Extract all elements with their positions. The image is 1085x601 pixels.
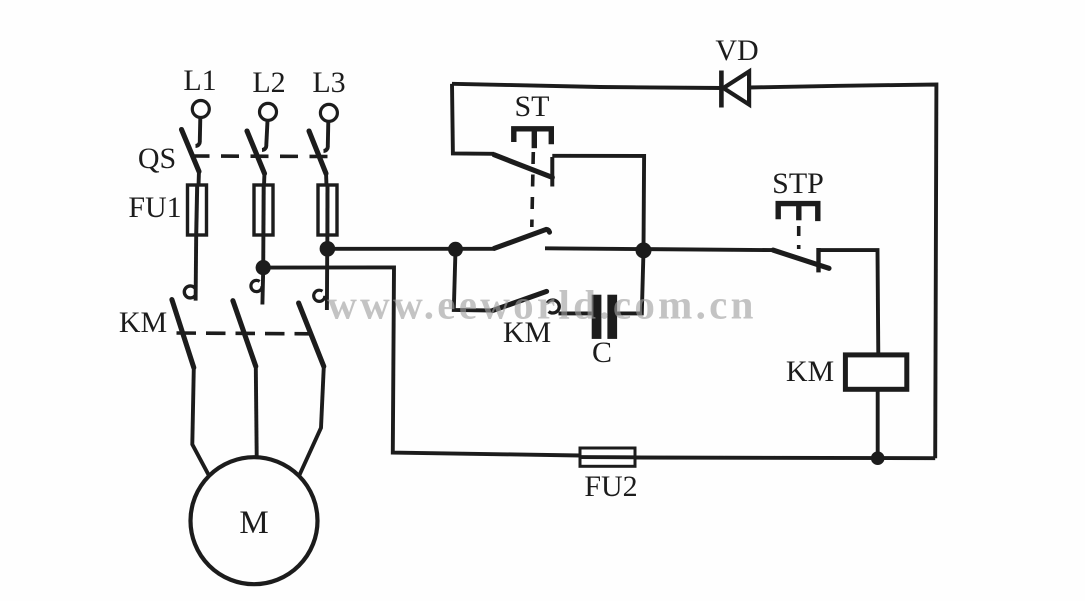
contact curl pole3 (314, 290, 325, 301)
wire L2 stem (262, 121, 268, 150)
pushbutton STP cap stem (796, 204, 801, 221)
wire L3 to fuse (324, 172, 328, 186)
wire top loop left corner (452, 84, 494, 154)
capacitor C left plate (592, 295, 602, 339)
fuse FU1 pole2 body (254, 185, 273, 235)
svg-text:L1: L1 (183, 64, 216, 97)
wire fuse3 to junction and curl (325, 235, 329, 310)
fuse FU1 pole1 wire through (196, 185, 197, 235)
switch QS pole1 blade (182, 130, 200, 172)
auxiliary contact KM blade (493, 291, 547, 310)
svg-text:ST: ST (514, 90, 549, 123)
terminal circle L2 (260, 103, 277, 120)
pushbutton ST cap stem (532, 129, 537, 148)
switch QS pole2 blade (247, 131, 265, 174)
contact stop bar ST NC (550, 157, 554, 187)
wire KM pole2 to motor (254, 366, 259, 456)
contact curl pole1 (184, 286, 196, 298)
fuse FU1 pole2 wire through (261, 185, 265, 235)
pushbutton STP NC blade (773, 250, 829, 268)
svg-text:M: M (239, 505, 268, 541)
node control-left junction (448, 242, 463, 257)
wire aux branch left vertical (454, 249, 493, 310)
svg-text:STP: STP (772, 167, 824, 200)
contact curl pole2 (251, 280, 262, 291)
wire bottom line right (635, 456, 935, 461)
svg-text:FU1: FU1 (128, 191, 181, 224)
wire control line middle (545, 248, 773, 250)
wire control line from L3 junction (327, 247, 493, 251)
pushbutton ST NC blade (494, 155, 552, 178)
node bottom junction (871, 451, 885, 465)
node control-right junction (636, 242, 652, 258)
contact stop bar STP NC (816, 248, 820, 272)
capacitor C right plate (607, 295, 617, 339)
wire aux to capacitor (559, 311, 592, 315)
wire L2 to fuse (262, 172, 266, 186)
pushbutton STP cap (778, 204, 818, 222)
diode VD cathode bar (719, 71, 724, 108)
switch QS pole3 blade (309, 131, 326, 174)
wire ST NC to control junction (552, 156, 644, 251)
coil KM body (845, 355, 906, 389)
fuse FU1 pole3 body (318, 185, 337, 235)
wire L3 stem (324, 122, 329, 151)
contact seat arc KM aux (546, 300, 559, 313)
svg-text:L3: L3 (312, 66, 345, 99)
contactor KM pole3 blade (299, 303, 324, 366)
motor M circle (191, 457, 318, 584)
wire fuse2 to junction (262, 235, 263, 305)
wire L1 to fuse (197, 170, 201, 186)
dashed actuator ST (532, 152, 534, 227)
dashed actuator STP (797, 226, 801, 249)
svg-text:KM: KM (786, 355, 834, 388)
svg-text:VD: VD (715, 34, 758, 67)
node L3 branch junction (320, 241, 336, 257)
svg-text:FU2: FU2 (584, 470, 637, 503)
fuse FU1 pole1 body (188, 185, 207, 235)
wire KM pole3 to motor (299, 366, 324, 476)
wire L2 branch to bottom loop (263, 267, 580, 455)
fuse FU2 body (580, 448, 635, 466)
dashed link KM main (177, 331, 313, 335)
wire capacitor to right vertical (617, 250, 643, 313)
terminal circle L3 (320, 104, 337, 121)
node L2 branch junction (256, 260, 271, 275)
svg-text:L2: L2 (252, 66, 285, 99)
fuse FU2 wire through (580, 455, 635, 459)
wire KM pole1 to motor (192, 368, 209, 476)
svg-text:KM: KM (119, 306, 167, 339)
contactor KM pole2 blade (233, 301, 256, 367)
contactor KM pole1 blade (172, 300, 194, 368)
wire fuse1 to contact curl (194, 235, 198, 301)
dashed link QS (192, 154, 330, 158)
fuse FU1 pole3 wire through (325, 185, 329, 235)
svg-text:www.eeworld.com.cn: www.eeworld.com.cn (327, 282, 756, 328)
wire STP to coil branch (820, 250, 879, 355)
svg-text:QS: QS (138, 142, 176, 175)
pushbutton ST NO blade (494, 229, 549, 248)
wire coil to bottom junction (876, 389, 880, 458)
wire top line (452, 84, 721, 88)
wire top line right (749, 85, 936, 459)
svg-text:C: C (592, 336, 612, 369)
terminal circle L1 (192, 101, 209, 118)
pushbutton ST cap (514, 129, 552, 144)
wire L1 stem (196, 118, 201, 146)
diode VD triangle (723, 72, 749, 105)
